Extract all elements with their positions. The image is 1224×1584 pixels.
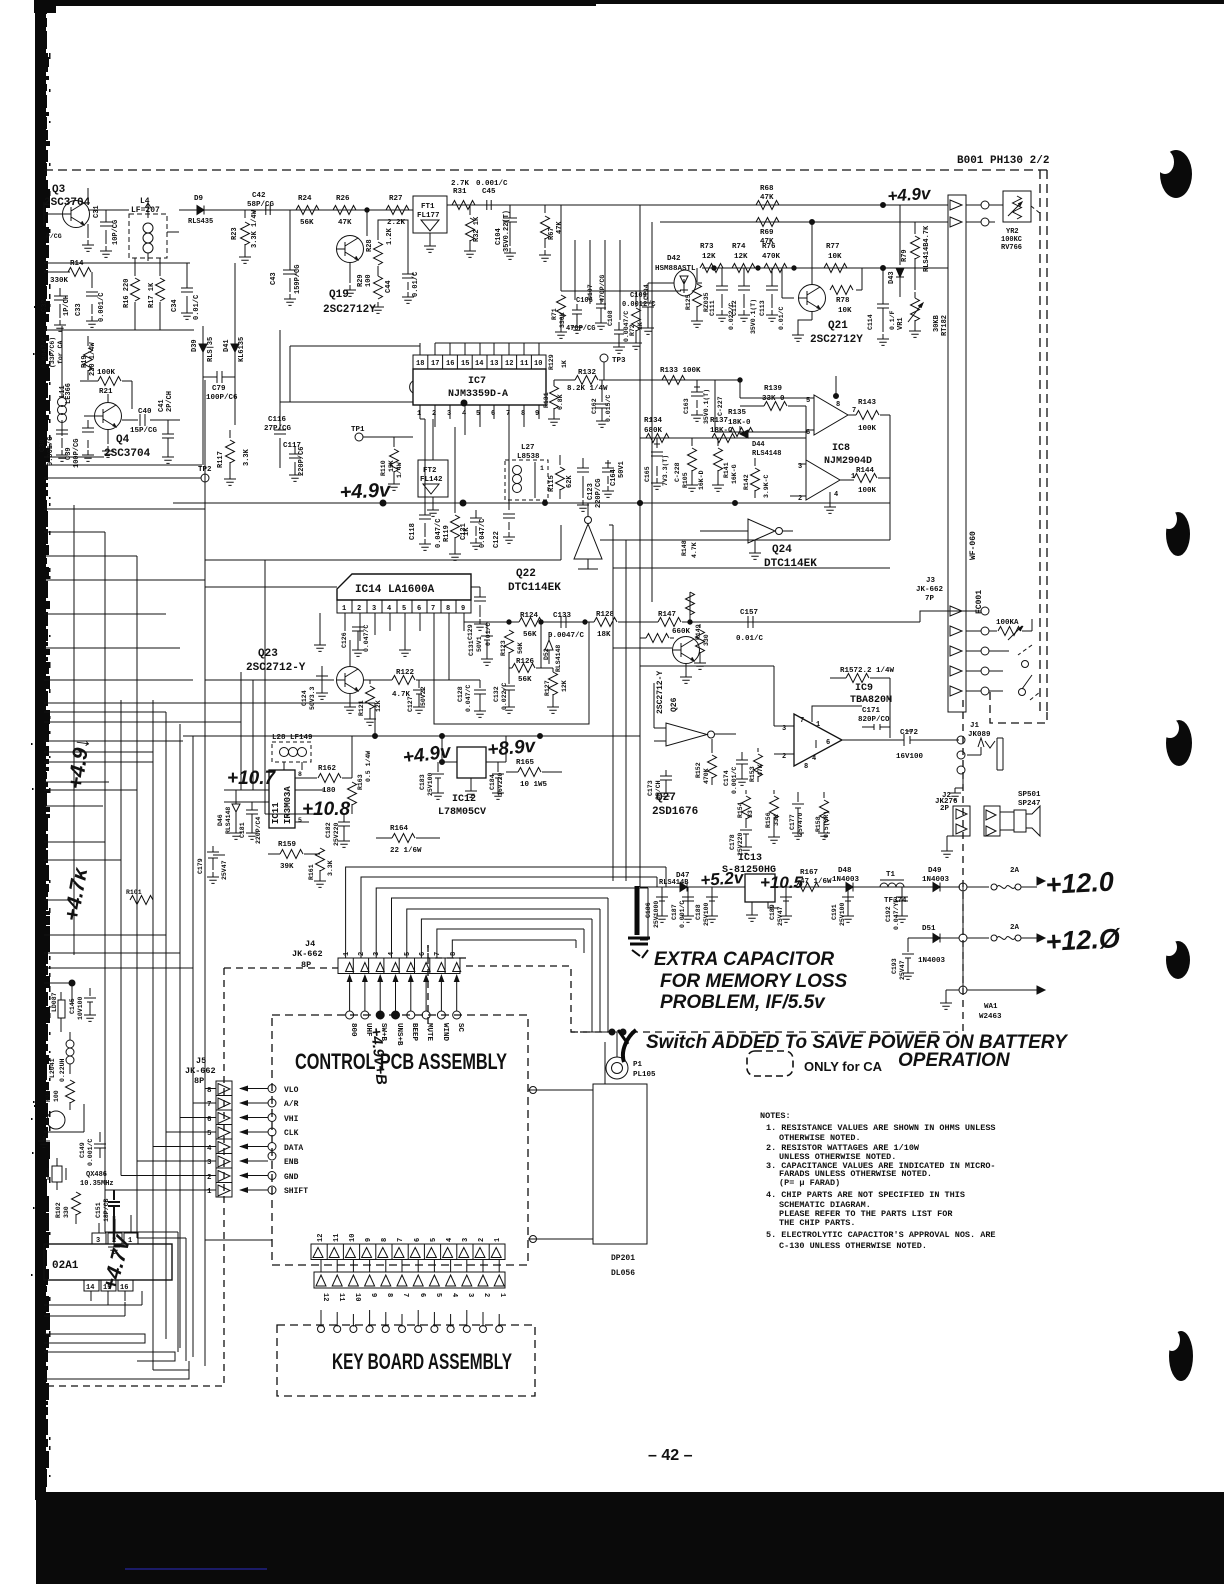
svg-text:10: 10 bbox=[353, 1293, 361, 1301]
svg-text:1: 1 bbox=[540, 465, 544, 472]
svg-text:PL105: PL105 bbox=[633, 1071, 656, 1079]
svg-text:R17 1K: R17 1K bbox=[148, 282, 156, 308]
svg-text:1N4003: 1N4003 bbox=[918, 957, 946, 965]
svg-text:1: 1 bbox=[494, 1238, 502, 1242]
svg-text:10 1W5: 10 1W5 bbox=[520, 781, 548, 789]
svg-text:(33P/C6): (33P/C6) bbox=[49, 337, 56, 368]
svg-text:8: 8 bbox=[446, 605, 450, 613]
svg-text:4: 4 bbox=[834, 491, 838, 499]
svg-text:1. RESISTANCE VALUES ARE SHOWN: 1. RESISTANCE VALUES ARE SHOWN IN OHMS U… bbox=[766, 1123, 996, 1133]
svg-text:3: 3 bbox=[373, 952, 381, 956]
svg-text:0.047/C: 0.047/C bbox=[479, 519, 487, 548]
svg-text:R142: R142 bbox=[743, 474, 750, 490]
svg-text:RLS|35: RLS|35 bbox=[207, 337, 215, 362]
svg-text:470P/CG: 470P/CG bbox=[566, 325, 595, 333]
svg-text:QX486: QX486 bbox=[86, 1171, 107, 1179]
svg-text:C163: C163 bbox=[683, 398, 690, 414]
svg-text:GND: GND bbox=[284, 1173, 299, 1182]
svg-text:R163: R163 bbox=[357, 774, 364, 790]
svg-text:8: 8 bbox=[521, 410, 525, 418]
svg-text:1N4003: 1N4003 bbox=[922, 876, 950, 884]
svg-text:C116: C116 bbox=[268, 416, 287, 424]
svg-text:8: 8 bbox=[450, 952, 458, 956]
svg-text:D48: D48 bbox=[838, 867, 852, 875]
svg-text:R101: R101 bbox=[126, 889, 142, 896]
svg-text:P/CG: P/CG bbox=[46, 233, 62, 240]
svg-text:for CA: for CA bbox=[57, 340, 64, 364]
svg-text:R76: R76 bbox=[762, 243, 776, 251]
svg-text:12: 12 bbox=[317, 1234, 325, 1242]
svg-text:50V1: 50V1 bbox=[476, 636, 483, 652]
svg-text:C188: C188 bbox=[695, 904, 702, 920]
svg-text:6.8K: 6.8K bbox=[557, 394, 564, 410]
svg-text:7: 7 bbox=[434, 952, 442, 956]
svg-text:1: 1 bbox=[342, 605, 346, 613]
svg-text:+12.Ø: +12.Ø bbox=[1045, 923, 1122, 957]
svg-text:35V0.1(T): 35V0.1(T) bbox=[703, 389, 710, 424]
svg-text:C44: C44 bbox=[385, 280, 393, 293]
svg-text:CLK: CLK bbox=[284, 1129, 299, 1138]
svg-text:470P/CG: 470P/CG bbox=[599, 275, 606, 302]
svg-text:330: 330 bbox=[63, 1206, 70, 1218]
svg-text:TP1: TP1 bbox=[351, 426, 365, 434]
svg-text:C79: C79 bbox=[212, 385, 226, 393]
svg-text:0.5 1/4W: 0.5 1/4W bbox=[365, 751, 372, 782]
svg-text:1: 1 bbox=[343, 952, 351, 956]
svg-text:ONLY for CA: ONLY for CA bbox=[804, 1059, 883, 1074]
svg-text:12: 12 bbox=[321, 1293, 329, 1301]
svg-text:CONTROL PCB ASSEMBLY: CONTROL PCB ASSEMBLY bbox=[295, 1049, 507, 1074]
svg-text:100KC: 100KC bbox=[1001, 236, 1022, 244]
svg-text:C184: C184 bbox=[489, 774, 496, 790]
svg-text:14: 14 bbox=[86, 1284, 94, 1292]
svg-text:3P/CH: 3P/CH bbox=[655, 780, 662, 800]
svg-text:IC12: IC12 bbox=[452, 794, 476, 805]
svg-text:R117: R117 bbox=[217, 451, 225, 468]
svg-text:R77: R77 bbox=[826, 243, 840, 251]
svg-text:C126: C126 bbox=[341, 632, 348, 648]
svg-text:100KA: 100KA bbox=[996, 619, 1019, 627]
svg-text:1.2K: 1.2K bbox=[386, 227, 394, 245]
svg-text:4: 4 bbox=[462, 410, 466, 418]
svg-text:VR1: VR1 bbox=[897, 317, 905, 330]
svg-text:8: 8 bbox=[804, 763, 808, 771]
svg-text:C127: C127 bbox=[407, 696, 414, 712]
svg-text:C157: C157 bbox=[740, 609, 758, 617]
svg-text:C183: C183 bbox=[419, 774, 426, 790]
svg-text:LD087: LD087 bbox=[51, 992, 58, 1012]
svg-text:R32 1K: R32 1K bbox=[473, 216, 481, 242]
svg-text:J4: J4 bbox=[305, 939, 315, 949]
svg-text:0.01/C: 0.01/C bbox=[736, 635, 764, 643]
svg-text:3: 3 bbox=[798, 463, 802, 471]
svg-text:C177: C177 bbox=[789, 814, 796, 830]
svg-text:0.1/F: 0.1/F bbox=[889, 310, 896, 330]
svg-text:C108: C108 bbox=[607, 310, 614, 326]
svg-text:10K: 10K bbox=[838, 307, 852, 315]
svg-text:IC9: IC9 bbox=[855, 683, 873, 694]
svg-text:A/R: A/R bbox=[284, 1100, 299, 1109]
svg-text:1: 1 bbox=[816, 721, 820, 729]
svg-text:R129: R129 bbox=[548, 354, 555, 370]
svg-text:8: 8 bbox=[381, 1238, 389, 1242]
svg-text:R134: R134 bbox=[644, 417, 663, 425]
svg-text:IC11: IC11 bbox=[271, 802, 281, 824]
svg-text:D9: D9 bbox=[194, 195, 204, 203]
svg-text:3: 3 bbox=[462, 1238, 470, 1242]
svg-text:ENB: ENB bbox=[284, 1158, 299, 1167]
svg-text:D51: D51 bbox=[922, 925, 936, 933]
svg-text:J3: J3 bbox=[926, 577, 936, 585]
svg-text:47K: 47K bbox=[556, 221, 564, 234]
svg-text:1K: 1K bbox=[561, 360, 568, 368]
svg-text:50V22: 50V22 bbox=[420, 686, 427, 706]
svg-text:C111: C111 bbox=[709, 300, 716, 316]
svg-text:+10.5: +10.5 bbox=[760, 873, 804, 892]
svg-text:SP247: SP247 bbox=[1018, 800, 1041, 808]
svg-text:+10.7: +10.7 bbox=[227, 768, 277, 789]
svg-text:25V1000: 25V1000 bbox=[653, 901, 660, 928]
svg-text:33K-0: 33K-0 bbox=[762, 395, 785, 403]
svg-text:12K: 12K bbox=[375, 700, 382, 712]
svg-text:R131: R131 bbox=[543, 392, 550, 408]
svg-text:L78M05CV: L78M05CV bbox=[438, 807, 486, 818]
svg-text:C164: C164 bbox=[610, 469, 618, 486]
svg-text:0.001/C: 0.001/C bbox=[47, 437, 55, 466]
svg-text:FL177: FL177 bbox=[417, 212, 440, 220]
svg-text:0.001/C: 0.001/C bbox=[731, 767, 738, 794]
svg-text:R143: R143 bbox=[858, 399, 877, 407]
svg-text:WF-060: WF-060 bbox=[969, 531, 978, 560]
svg-text:IC13: IC13 bbox=[738, 853, 762, 864]
svg-text:C107: C107 bbox=[587, 284, 594, 300]
svg-text:– 42 –: – 42 – bbox=[648, 1447, 693, 1464]
svg-text:3.3K: 3.3K bbox=[243, 448, 251, 466]
svg-text:DL056: DL056 bbox=[611, 1269, 635, 1278]
svg-text:100: 100 bbox=[365, 274, 373, 287]
svg-text:C162: C162 bbox=[591, 398, 598, 414]
svg-text:18: 18 bbox=[416, 360, 424, 368]
svg-text:7: 7 bbox=[800, 717, 804, 725]
svg-text:D44: D44 bbox=[752, 441, 765, 449]
svg-text:C189: C189 bbox=[769, 904, 776, 920]
svg-text:R74: R74 bbox=[732, 243, 746, 251]
svg-text:6: 6 bbox=[419, 952, 427, 956]
svg-text:R165: R165 bbox=[516, 759, 535, 767]
svg-text:R137: R137 bbox=[710, 417, 728, 425]
svg-text:25V47: 25V47 bbox=[899, 960, 906, 980]
svg-text:5: 5 bbox=[434, 1293, 442, 1297]
svg-text:C112: C112 bbox=[731, 300, 738, 316]
svg-text:JK-662: JK-662 bbox=[292, 949, 323, 959]
svg-text:C32: C32 bbox=[41, 299, 49, 312]
svg-text:660K: 660K bbox=[672, 628, 691, 636]
svg-text:6: 6 bbox=[826, 739, 830, 747]
svg-text:0.047/YF: 0.047/YF bbox=[893, 899, 900, 930]
svg-text:220P/C6: 220P/C6 bbox=[298, 447, 306, 476]
svg-text:R105: R105 bbox=[682, 472, 689, 488]
svg-text:330K: 330K bbox=[50, 277, 69, 285]
svg-text:RLS4148: RLS4148 bbox=[555, 645, 562, 672]
svg-text:25V100: 25V100 bbox=[703, 902, 710, 926]
svg-text:C113: C113 bbox=[759, 300, 766, 316]
svg-text:4: 4 bbox=[450, 1293, 458, 1297]
svg-text:4. CHIP PARTS ARE NOT SPECIFIE: 4. CHIP PARTS ARE NOT SPECIFIED IN THIS bbox=[766, 1190, 965, 1200]
svg-text:C121: C121 bbox=[460, 523, 468, 540]
svg-text:R102: R102 bbox=[55, 1202, 62, 1218]
svg-text:C33: C33 bbox=[75, 303, 83, 316]
svg-text:Q21: Q21 bbox=[828, 320, 848, 332]
svg-text:C104: C104 bbox=[495, 228, 503, 245]
svg-text:OTHERWISE NOTED.: OTHERWISE NOTED. bbox=[779, 1133, 861, 1143]
svg-text:3: 3 bbox=[447, 410, 451, 418]
svg-text:0.01/C: 0.01/C bbox=[778, 306, 785, 330]
svg-text:R153: R153 bbox=[749, 766, 756, 782]
svg-text:KL6135: KL6135 bbox=[238, 337, 246, 362]
svg-text:C43: C43 bbox=[270, 272, 278, 285]
svg-text:18K-C: 18K-C bbox=[710, 427, 733, 435]
svg-text:C182: C182 bbox=[325, 822, 332, 838]
svg-text:5: 5 bbox=[806, 397, 810, 405]
svg-text:KEY BOARD ASSEMBLY: KEY BOARD ASSEMBLY bbox=[332, 1349, 512, 1374]
svg-text:R27: R27 bbox=[389, 195, 403, 203]
svg-text:2SC2712-Y: 2SC2712-Y bbox=[246, 662, 306, 674]
svg-text:L2041: L2041 bbox=[49, 1058, 56, 1078]
svg-text:2: 2 bbox=[432, 410, 436, 418]
svg-text:2.2 1/4W: 2.2 1/4W bbox=[858, 667, 895, 675]
svg-text:2: 2 bbox=[482, 1293, 490, 1297]
svg-text:11: 11 bbox=[520, 360, 528, 368]
svg-text:C41: C41 bbox=[158, 399, 166, 412]
svg-text:C-130 UNLESS OTHERWISE NOTED.: C-130 UNLESS OTHERWISE NOTED. bbox=[779, 1241, 927, 1251]
svg-text:14: 14 bbox=[475, 360, 483, 368]
svg-text:3.3K: 3.3K bbox=[327, 860, 334, 876]
svg-text:470K: 470K bbox=[762, 253, 781, 261]
svg-text:DP201: DP201 bbox=[611, 1254, 635, 1263]
svg-text:+4.7V: +4.7V bbox=[99, 1232, 136, 1293]
svg-text:WIND: WIND bbox=[441, 1023, 449, 1042]
svg-text:220P/CG: 220P/CG bbox=[595, 479, 603, 508]
svg-text:4.7K: 4.7K bbox=[691, 542, 698, 558]
svg-text:OPERATION: OPERATION bbox=[898, 1050, 1011, 1071]
svg-text:4: 4 bbox=[207, 1145, 212, 1153]
svg-text:C39: C39 bbox=[65, 447, 73, 460]
svg-text:12: 12 bbox=[505, 360, 513, 368]
svg-text:D42: D42 bbox=[667, 255, 681, 263]
svg-text:2P/CH: 2P/CH bbox=[166, 391, 174, 412]
svg-text:R14: R14 bbox=[70, 260, 84, 268]
svg-text:R122: R122 bbox=[396, 669, 415, 677]
svg-text:R69: R69 bbox=[760, 229, 774, 237]
svg-text:7: 7 bbox=[506, 410, 510, 418]
svg-text:0.01/C: 0.01/C bbox=[193, 295, 201, 320]
svg-text:8: 8 bbox=[298, 771, 302, 778]
svg-text:1: 1 bbox=[498, 1293, 506, 1297]
svg-text:50V3.3: 50V3.3 bbox=[309, 686, 316, 710]
svg-text:VLO: VLO bbox=[284, 1086, 299, 1095]
svg-text:C186: C186 bbox=[645, 902, 652, 918]
svg-text:0.0047/C: 0.0047/C bbox=[41, 337, 48, 368]
svg-text:0.047/C: 0.047/C bbox=[363, 625, 370, 652]
svg-text:0.0012/C: 0.0012/C bbox=[622, 301, 656, 309]
svg-text:25V47: 25V47 bbox=[221, 860, 228, 880]
svg-text:C187: C187 bbox=[671, 904, 678, 920]
svg-text:18K: 18K bbox=[597, 631, 611, 639]
svg-text:0.0047/C: 0.0047/C bbox=[548, 632, 585, 640]
svg-text:820P/CO: 820P/CO bbox=[858, 716, 890, 724]
svg-text:7: 7 bbox=[207, 1101, 212, 1109]
svg-text:IC7: IC7 bbox=[468, 376, 486, 387]
svg-text:+4.9v: +4.9v bbox=[401, 741, 453, 769]
svg-text:3: 3 bbox=[782, 725, 786, 733]
svg-text:3: 3 bbox=[96, 1237, 100, 1245]
svg-text:6: 6 bbox=[418, 1293, 426, 1297]
svg-text:0.22UH: 0.22UH bbox=[59, 1058, 66, 1082]
svg-text:C114: C114 bbox=[867, 314, 874, 330]
svg-text:8: 8 bbox=[385, 1293, 393, 1297]
svg-text:16V100: 16V100 bbox=[896, 753, 924, 761]
svg-text:R31: R31 bbox=[453, 188, 467, 196]
svg-text:RLS4148: RLS4148 bbox=[752, 450, 781, 458]
svg-text:100P/C6: 100P/C6 bbox=[206, 394, 238, 402]
svg-text:13: 13 bbox=[490, 360, 498, 368]
svg-text:D49: D49 bbox=[928, 867, 942, 875]
svg-text:R23: R23 bbox=[231, 227, 239, 240]
svg-text:C178: C178 bbox=[729, 834, 736, 850]
svg-text:12K: 12K bbox=[561, 680, 568, 692]
svg-text:R124: R124 bbox=[520, 612, 539, 620]
svg-text:R24: R24 bbox=[298, 195, 312, 203]
svg-text:3: 3 bbox=[372, 605, 376, 613]
svg-text:100K: 100K bbox=[858, 425, 877, 433]
svg-text:+12.0: +12.0 bbox=[1045, 866, 1115, 900]
svg-text:330: 330 bbox=[703, 634, 710, 646]
svg-text:C179: C179 bbox=[197, 858, 204, 874]
svg-text:Q4: Q4 bbox=[116, 434, 130, 446]
svg-text:800: 800 bbox=[349, 1023, 357, 1037]
svg-text:C191: C191 bbox=[831, 904, 838, 920]
svg-text:7: 7 bbox=[431, 605, 435, 613]
svg-text:47K: 47K bbox=[760, 194, 774, 202]
svg-text:C165: C165 bbox=[644, 466, 651, 482]
svg-text:R125: R125 bbox=[685, 294, 692, 310]
svg-text:R164: R164 bbox=[390, 825, 409, 833]
svg-text:SC: SC bbox=[456, 1023, 464, 1033]
svg-text:62K: 62K bbox=[566, 475, 574, 488]
svg-text:9: 9 bbox=[369, 1293, 377, 1297]
svg-text:RV766: RV766 bbox=[1001, 244, 1022, 252]
svg-text:D41: D41 bbox=[223, 339, 231, 352]
svg-text:16K-D: 16K-D bbox=[698, 470, 705, 490]
svg-text:R67: R67 bbox=[548, 227, 556, 240]
svg-text:SHIFT: SHIFT bbox=[284, 1187, 308, 1196]
svg-text:8: 8 bbox=[207, 1087, 212, 1095]
svg-text:C131: C131 bbox=[468, 640, 475, 656]
svg-text:6: 6 bbox=[491, 410, 495, 418]
svg-text:16K-G: 16K-G bbox=[731, 464, 738, 484]
svg-text:17: 17 bbox=[431, 360, 439, 368]
svg-text:B001 PH130 2/2: B001 PH130 2/2 bbox=[957, 155, 1049, 167]
svg-text:D46: D46 bbox=[217, 814, 224, 826]
svg-text:39K: 39K bbox=[280, 863, 294, 871]
svg-text:Q3: Q3 bbox=[52, 184, 66, 196]
svg-text:56K: 56K bbox=[518, 676, 532, 684]
svg-text:11: 11 bbox=[333, 1234, 341, 1242]
svg-text:R135: R135 bbox=[728, 409, 747, 417]
svg-text:2: 2 bbox=[207, 1174, 212, 1182]
svg-text:TBA820M: TBA820M bbox=[850, 695, 892, 706]
svg-text:2: 2 bbox=[478, 1238, 486, 1242]
svg-text:5: 5 bbox=[402, 605, 406, 613]
svg-text:R79: R79 bbox=[901, 249, 909, 262]
svg-text:D39: D39 bbox=[191, 339, 199, 352]
svg-text:MUTE: MUTE bbox=[425, 1023, 433, 1042]
svg-text:2.7K: 2.7K bbox=[451, 180, 470, 188]
svg-text:1: 1 bbox=[417, 410, 421, 418]
svg-text:5: 5 bbox=[207, 1130, 212, 1138]
svg-text:R159: R159 bbox=[278, 841, 297, 849]
svg-text:FL142: FL142 bbox=[420, 476, 443, 484]
svg-text:R71: R71 bbox=[551, 308, 558, 320]
svg-text:DATA: DATA bbox=[284, 1144, 303, 1153]
svg-text:C172: C172 bbox=[900, 729, 919, 737]
svg-text:T1: T1 bbox=[886, 871, 896, 879]
svg-text:100: 100 bbox=[53, 1090, 60, 1102]
svg-text:JK-662: JK-662 bbox=[916, 586, 944, 594]
svg-text:R99: R99 bbox=[45, 1090, 52, 1102]
svg-text:4: 4 bbox=[446, 1238, 454, 1242]
svg-text:C129: C129 bbox=[467, 624, 474, 640]
svg-text:3.3K 1/4W: 3.3K 1/4W bbox=[251, 209, 259, 248]
svg-text:2SC2712Y: 2SC2712Y bbox=[323, 304, 376, 316]
svg-text:L27: L27 bbox=[521, 444, 535, 452]
svg-text:0.047/C: 0.047/C bbox=[435, 519, 443, 548]
svg-text:56K: 56K bbox=[300, 219, 314, 227]
svg-text:0.001/C: 0.001/C bbox=[476, 180, 508, 188]
svg-text:R21: R21 bbox=[99, 388, 113, 396]
svg-text:THE CHIP PARTS.: THE CHIP PARTS. bbox=[779, 1218, 856, 1228]
svg-text:D43: D43 bbox=[888, 271, 896, 284]
svg-text:R119: R119 bbox=[443, 525, 451, 542]
svg-text:1P/CH: 1P/CH bbox=[63, 295, 71, 316]
svg-text:C38: C38 bbox=[39, 439, 47, 452]
svg-text:C128: C128 bbox=[457, 686, 464, 702]
svg-text:C192: C192 bbox=[885, 906, 892, 922]
svg-text:R152: R152 bbox=[695, 762, 702, 778]
svg-text:R26: R26 bbox=[336, 195, 350, 203]
svg-text:2: 2 bbox=[782, 753, 786, 761]
svg-text:7: 7 bbox=[401, 1293, 409, 1297]
svg-text:5: 5 bbox=[430, 1238, 438, 1242]
svg-text:3.9K-C: 3.9K-C bbox=[763, 474, 770, 498]
svg-text:8P: 8P bbox=[301, 960, 311, 970]
svg-text:NJM3359D-A: NJM3359D-A bbox=[448, 389, 508, 400]
svg-text:+4.9v: +4.9v bbox=[339, 479, 393, 504]
svg-text:30KB: 30KB bbox=[933, 314, 941, 332]
svg-text:R68: R68 bbox=[760, 185, 774, 193]
svg-text:PROBLEM, IF/5.5v: PROBLEM, IF/5.5v bbox=[660, 992, 826, 1013]
svg-text:2A: 2A bbox=[1010, 924, 1020, 932]
svg-text:10V100: 10V100 bbox=[77, 996, 84, 1020]
svg-text:35V0.1(T): 35V0.1(T) bbox=[750, 299, 757, 334]
svg-text:R78: R78 bbox=[836, 297, 850, 305]
svg-text:10P/CG: 10P/CG bbox=[112, 220, 120, 245]
svg-text:2: 2 bbox=[357, 605, 361, 613]
svg-text:47K: 47K bbox=[338, 219, 352, 227]
svg-text:180: 180 bbox=[322, 787, 336, 795]
svg-text:10.35MHz: 10.35MHz bbox=[80, 1180, 114, 1188]
svg-text:C118: C118 bbox=[409, 523, 417, 540]
